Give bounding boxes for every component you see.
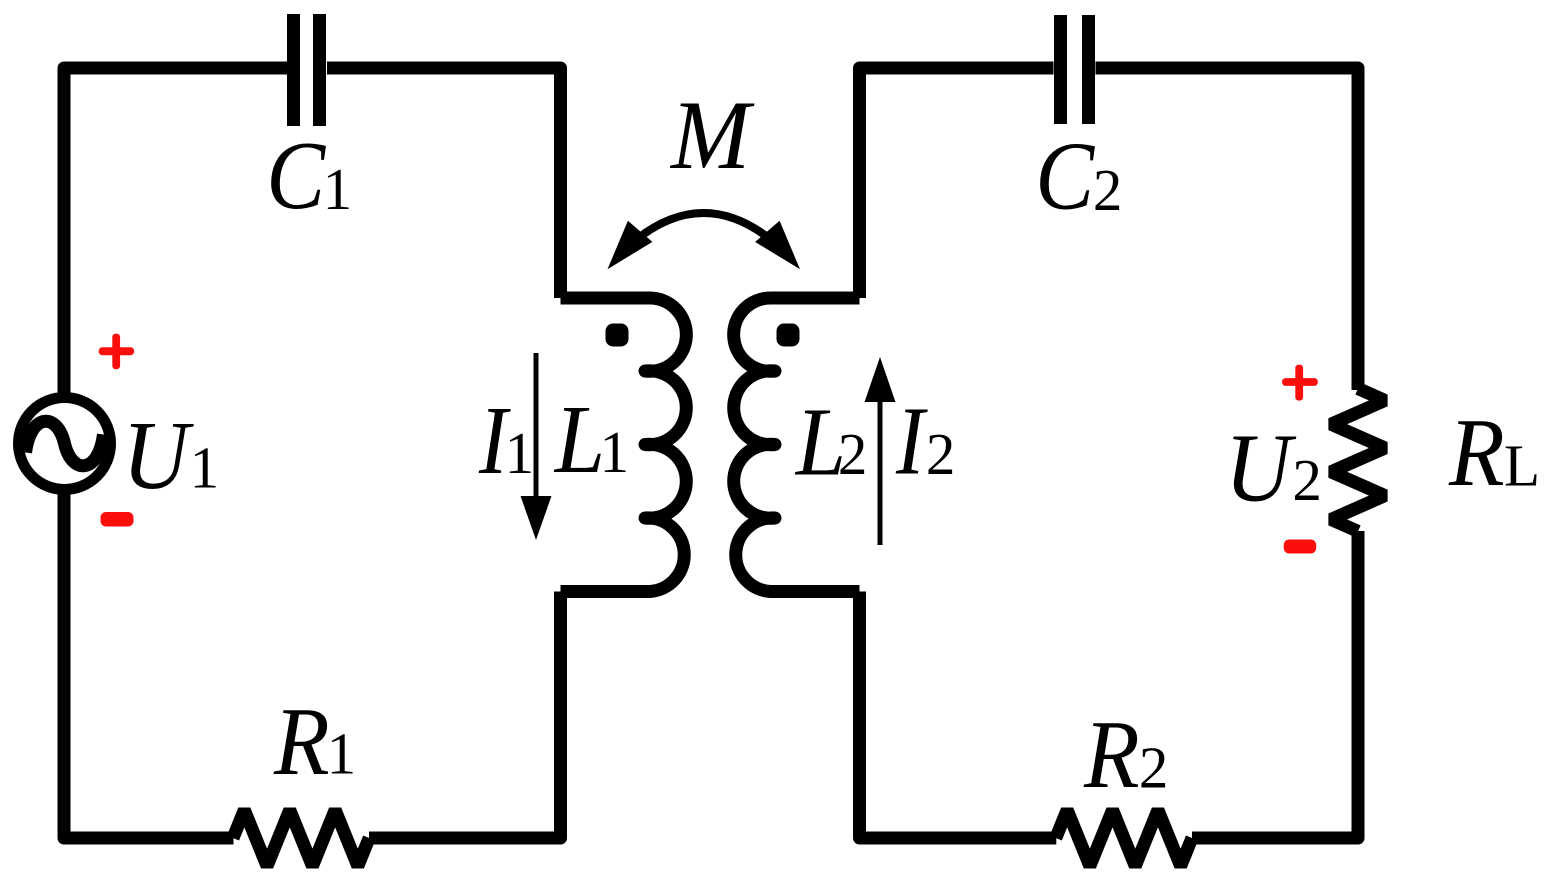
minus sign left [101, 512, 134, 527]
AC source U1 circle [19, 398, 111, 490]
current arrow I2 (up) [878, 400, 883, 545]
mutual arc arrowhead left [608, 221, 653, 269]
wire left-loop: C1 right plate to top-right corner, down to L1 top stub [327, 68, 561, 298]
svg-text:1: 1 [600, 419, 630, 485]
mutual coupling arc M [622, 213, 785, 252]
resistor R2 [1056, 810, 1192, 866]
inductor L2 [734, 298, 860, 592]
svg-text:C: C [1035, 123, 1095, 231]
svg-text:L: L [1504, 433, 1540, 499]
plus sign left [99, 334, 134, 370]
capacitor C2 [1061, 15, 1089, 124]
svg-text:M: M [669, 80, 755, 189]
svg-text:L: L [553, 387, 605, 494]
svg-text:1: 1 [505, 420, 534, 486]
svg-text:2: 2 [1093, 157, 1123, 223]
svg-text:U: U [1225, 415, 1297, 522]
wire left-loop: L1 bottom stub down to bottom wire, left to R1 [369, 592, 561, 839]
svg-text:I: I [895, 388, 928, 495]
svg-text:1: 1 [327, 721, 357, 787]
svg-text:R: R [1448, 399, 1505, 506]
plus sign right [1282, 365, 1318, 401]
resistor RL [1331, 389, 1385, 532]
svg-text:C: C [266, 122, 326, 230]
current arrow I1 (down) [534, 353, 539, 505]
wire right-loop: R2 left end to bottom-left corner, up to L2 bottom stub [860, 592, 1057, 839]
svg-text:2: 2 [1292, 447, 1322, 513]
wire left-loop: R1 left end to bottom-left corner, up to source bottom [64, 493, 234, 838]
wire right-loop: RL bottom down to bottom-right corner, left to R2 [1192, 531, 1358, 838]
svg-text:2: 2 [1139, 735, 1169, 801]
inductor L1 [561, 298, 687, 592]
svg-text:1: 1 [190, 435, 220, 501]
capacitor C1 [294, 14, 320, 126]
mutual arc arrowhead right [755, 221, 800, 269]
resistor R1 [233, 810, 369, 866]
wire right-loop: L2 top stub up left side, across top to C2 left plate [860, 68, 1054, 298]
svg-text:R: R [1083, 701, 1140, 808]
svg-text:2: 2 [926, 421, 956, 487]
minus sign right [1284, 540, 1317, 554]
svg-text:U: U [122, 403, 194, 510]
dot mark L2 [777, 324, 800, 347]
AC source U1 sine wave [26, 421, 104, 466]
svg-text:R: R [273, 688, 330, 795]
svg-text:1: 1 [323, 156, 353, 222]
dot mark L1 [606, 324, 629, 347]
wire left-loop: from source top, up left side, across top to C1 left plate [64, 68, 287, 394]
wire right-loop: C2 right plate to top-right corner, down to RL top [1096, 68, 1359, 390]
svg-text:2: 2 [838, 421, 868, 487]
